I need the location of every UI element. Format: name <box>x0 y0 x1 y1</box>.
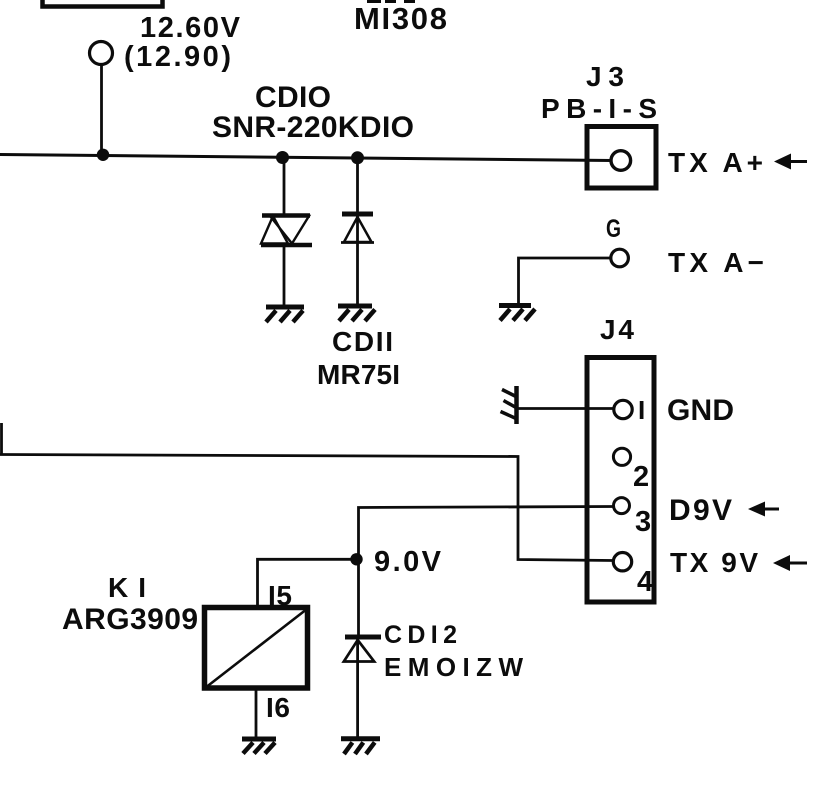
svg-text:4: 4 <box>637 566 653 598</box>
arrow into TX 9V <box>788 562 807 565</box>
svg-text:KI: KI <box>108 572 146 603</box>
wire TX9V from left edge <box>0 423 3 455</box>
terminal circle G <box>611 249 629 267</box>
svg-text:D9V: D9V <box>669 494 732 527</box>
connector J4 pin 4 circle <box>613 553 631 571</box>
wire chassis ground to pin 1 <box>519 407 614 410</box>
surge absorber CD10 (back-to-back zeners) <box>283 158 286 215</box>
svg-text:TX A−: TX A− <box>668 247 764 278</box>
wire from terminal down to bus <box>100 65 103 157</box>
diode CD11 <box>356 158 359 243</box>
svg-text:9.0V: 9.0V <box>374 546 442 578</box>
ground under CD12 <box>341 736 380 741</box>
svg-text:TX 9V: TX 9V <box>670 547 758 578</box>
svg-text:G: G <box>606 215 621 243</box>
connector J4 box <box>587 358 654 603</box>
connector J3 box <box>587 127 656 189</box>
connector J4 pin 1 circle <box>614 400 632 418</box>
terminal circle (12.60V test point) <box>90 42 113 65</box>
svg-text:MR75I: MR75I <box>317 359 400 390</box>
svg-text:12.60V: 12.60V <box>140 12 241 44</box>
ground under relay K1 <box>242 737 276 742</box>
svg-text:CDI2: CDI2 <box>384 621 457 649</box>
connector J3 pin circle <box>611 151 631 171</box>
connector J4 pin 2 circle <box>613 448 630 465</box>
cut-off text stubs above MI308 <box>367 0 381 3</box>
svg-text:(12.90): (12.90) <box>124 41 231 73</box>
relay K1 diagonal <box>207 611 305 687</box>
connector box (partial, cut off at top-left) <box>43 0 163 7</box>
relay K1 box <box>205 608 308 689</box>
svg-text:2: 2 <box>633 461 649 493</box>
ground for G <box>499 303 531 308</box>
wire 9.0V node to relay pin 15 <box>258 559 359 606</box>
wire relay pin 16 to ground <box>255 688 258 737</box>
diode CD12 <box>345 635 381 640</box>
wire from G terminal to ground <box>519 258 611 303</box>
arrow into TX A+ <box>788 160 807 163</box>
ground under CD11 <box>338 304 372 309</box>
junction dot CD10 <box>276 151 289 164</box>
ground under CD10 <box>266 305 304 310</box>
wire D9V from pin 3 <box>359 507 614 637</box>
junction dot at terminal <box>97 149 109 161</box>
junction dot 9.0V node <box>350 553 362 565</box>
svg-text:I: I <box>638 395 645 425</box>
svg-text:GND: GND <box>667 394 734 427</box>
wire main horizontal bus <box>0 155 612 161</box>
svg-text:CDIO: CDIO <box>255 81 331 114</box>
arrow into D9V <box>762 508 779 511</box>
svg-text:SNR-220KDIO: SNR-220KDIO <box>212 111 414 144</box>
svg-text:ARG3909: ARG3909 <box>62 603 198 636</box>
svg-text:PB-I-S: PB-I-S <box>541 93 657 124</box>
connector J4 pin 3 circle <box>614 498 630 514</box>
junction dot CD11 <box>351 151 364 164</box>
svg-text:I6: I6 <box>266 692 290 723</box>
svg-text:TX A+: TX A+ <box>668 147 763 178</box>
chassis ground at pin 1 <box>514 386 519 424</box>
svg-text:MI308: MI308 <box>354 1 447 36</box>
svg-text:3: 3 <box>635 506 651 538</box>
